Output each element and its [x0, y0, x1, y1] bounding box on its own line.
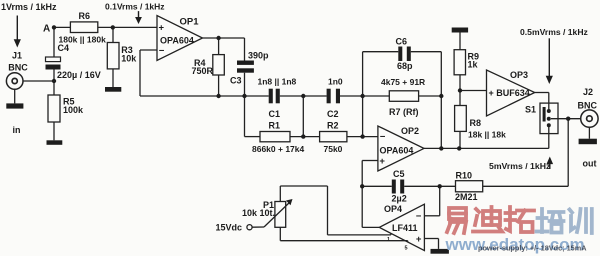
svg-text:68p: 68p — [397, 61, 413, 71]
svg-text:J1: J1 — [12, 51, 22, 61]
svg-text:2M21: 2M21 — [455, 192, 478, 202]
svg-text:OPA604: OPA604 — [380, 145, 414, 155]
svg-text:+: + — [379, 156, 385, 167]
svg-text:1n0: 1n0 — [328, 77, 343, 87]
svg-text:LF411: LF411 — [392, 223, 418, 233]
svg-text:C5: C5 — [393, 169, 405, 179]
svg-text:C6: C6 — [396, 37, 408, 47]
svg-text:2µ2: 2µ2 — [392, 194, 407, 204]
svg-text:+: + — [159, 23, 165, 34]
svg-text:R1: R1 — [269, 121, 281, 131]
svg-text:0.5mVrms / 1kHz: 0.5mVrms / 1kHz — [520, 27, 588, 37]
svg-text:−: − — [380, 131, 386, 142]
svg-text:out: out — [583, 159, 597, 169]
svg-text:BNC: BNC — [8, 62, 28, 72]
svg-text:18k || 18k: 18k || 18k — [468, 130, 506, 140]
svg-text:1n8 || 1n8: 1n8 || 1n8 — [258, 77, 297, 87]
svg-text:866k0 + 17k4: 866k0 + 17k4 — [252, 144, 305, 154]
svg-text:+ BUF634: + BUF634 — [489, 88, 530, 98]
svg-text:1k: 1k — [468, 60, 479, 70]
svg-text:R7 (Rf): R7 (Rf) — [389, 107, 419, 117]
svg-text:−: − — [416, 211, 422, 222]
svg-text:−: − — [159, 46, 165, 57]
svg-text:10k: 10k — [121, 54, 137, 64]
svg-text:75k0: 75k0 — [324, 144, 343, 154]
svg-text:C4: C4 — [58, 43, 70, 53]
svg-text:4k75 + 91R: 4k75 + 91R — [381, 77, 425, 87]
svg-text:OP3: OP3 — [510, 70, 528, 80]
svg-text:in: in — [13, 125, 21, 135]
svg-text:750R: 750R — [192, 66, 214, 76]
svg-text:S1: S1 — [525, 105, 536, 115]
svg-text:R6: R6 — [79, 11, 91, 21]
svg-text:C2: C2 — [327, 109, 339, 119]
svg-text:OPA604: OPA604 — [160, 36, 194, 46]
svg-text:R8: R8 — [470, 118, 482, 128]
svg-text:5: 5 — [405, 246, 408, 252]
svg-text:R10: R10 — [456, 171, 473, 181]
svg-text:390p: 390p — [248, 51, 269, 61]
svg-text:OP4: OP4 — [384, 204, 402, 214]
svg-text:OP1: OP1 — [180, 17, 200, 28]
svg-text:C1: C1 — [269, 109, 281, 119]
svg-text:A: A — [43, 23, 50, 34]
svg-text:220µ / 16V: 220µ / 16V — [57, 70, 101, 80]
svg-text:C3: C3 — [230, 75, 242, 85]
svg-text:power-supply: +/- 18Vdc; 15mA: power-supply: +/- 18Vdc; 15mA — [478, 244, 587, 253]
svg-text:J2: J2 — [583, 87, 593, 97]
svg-text:0.1Vrms / 1kHz: 0.1Vrms / 1kHz — [105, 2, 165, 12]
svg-text:100k: 100k — [63, 105, 84, 115]
svg-text:OP2: OP2 — [401, 126, 419, 136]
svg-text:15Vdc: 15Vdc — [216, 222, 243, 232]
svg-text:5mVrms / 1kHz: 5mVrms / 1kHz — [489, 161, 551, 171]
svg-text:1: 1 — [387, 237, 390, 243]
svg-text:BNC: BNC — [578, 100, 598, 110]
svg-text:10k 10t.: 10k 10t. — [242, 208, 275, 218]
svg-text:+: + — [416, 234, 422, 245]
svg-text:1Vrms / 1kHz: 1Vrms / 1kHz — [1, 2, 57, 12]
svg-text:R2: R2 — [327, 121, 339, 131]
